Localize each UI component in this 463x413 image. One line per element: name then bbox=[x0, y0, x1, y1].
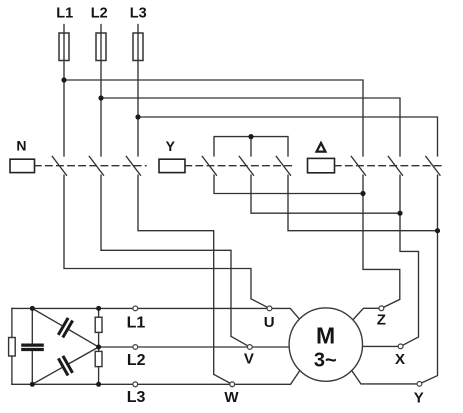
svg-text:L1: L1 bbox=[56, 6, 73, 22]
wire L2 phase vertical bbox=[100, 25, 102, 156]
svg-text:Z: Z bbox=[377, 312, 386, 329]
svg-text:L2: L2 bbox=[91, 6, 108, 22]
svg-text:L1: L1 bbox=[127, 314, 146, 331]
wire resistor chain bbox=[98, 308, 100, 384]
node L2 tap bbox=[98, 95, 103, 100]
contactor Y mechanical link bbox=[185, 165, 294, 167]
wire delta pole 2 to terminal X bbox=[400, 175, 419, 346]
node snubber top left bbox=[30, 306, 35, 311]
terminal Z bbox=[379, 306, 384, 311]
capacitor C1 diagonal branch bbox=[28, 301, 103, 354]
terminal Y bbox=[417, 382, 422, 387]
svg-text:V: V bbox=[244, 351, 254, 368]
contact N pole 2 blade bbox=[89, 156, 103, 175]
node snubber bottom right bbox=[96, 382, 101, 387]
svg-text:L3: L3 bbox=[127, 389, 146, 406]
wire star bridge centre tap bbox=[250, 137, 252, 156]
contactor D symbol triangle bbox=[317, 143, 326, 152]
wire Y pole 3 to node Y feed bbox=[288, 175, 438, 231]
wire L3 feed to delta contact 3 bbox=[138, 117, 438, 156]
wire delta pole 3 to terminal Y bbox=[419, 175, 437, 384]
contact Y pole 1 blade bbox=[202, 156, 216, 175]
contact Y pole 3 blade bbox=[276, 156, 290, 175]
contactor N coil bbox=[10, 159, 35, 172]
wire Y pole 2 to node X feed bbox=[251, 175, 400, 213]
wire motor lead to terminal Z bbox=[350, 308, 381, 323]
svg-text:L3: L3 bbox=[130, 6, 147, 22]
resistor R2 chain upper bbox=[95, 317, 102, 332]
terminal W bbox=[230, 382, 235, 387]
wire row L1 to motor U lead bbox=[12, 308, 302, 321]
svg-text:W: W bbox=[224, 389, 239, 406]
terminal U bbox=[267, 306, 272, 311]
node L1 tap bbox=[61, 77, 66, 82]
terminal L1 bbox=[133, 306, 138, 311]
terminal V bbox=[247, 345, 252, 350]
wire star bridge bbox=[214, 137, 288, 156]
fuse F3 bbox=[133, 33, 143, 61]
resistor R1 left rail bbox=[9, 338, 16, 357]
wire N pole 3 to terminal W bbox=[138, 175, 232, 384]
fuse F2 bbox=[96, 33, 106, 61]
node snubber top right bbox=[96, 306, 101, 311]
resistor R3 chain lower bbox=[95, 351, 102, 366]
wire L3 phase vertical bbox=[137, 25, 139, 156]
wire row L2 to motor V lead bbox=[99, 346, 290, 348]
wire N pole 2 to terminal V bbox=[101, 175, 250, 347]
capacitor C3 vertical branch plates bbox=[23, 345, 42, 349]
wire motor lead to terminal Y bbox=[350, 368, 419, 384]
contact N pole 1 blade bbox=[52, 156, 66, 175]
fuse F1 bbox=[59, 33, 69, 61]
svg-text:3~: 3~ bbox=[314, 350, 337, 372]
contactor D coil bbox=[308, 158, 335, 172]
contactor N mechanical link bbox=[35, 165, 147, 167]
wire L2 feed to delta contact 2 bbox=[101, 98, 400, 156]
terminal L3 bbox=[133, 382, 138, 387]
svg-text:Y: Y bbox=[414, 389, 424, 406]
contactor D mechanical link bbox=[335, 165, 444, 167]
contactor Y coil bbox=[159, 159, 185, 172]
node L3 tap bbox=[135, 114, 140, 119]
contact D pole 2 blade bbox=[388, 156, 402, 175]
contact N pole 3 blade bbox=[126, 156, 140, 175]
wire row L3 to motor W lead bbox=[12, 368, 302, 384]
svg-text:Y: Y bbox=[166, 138, 176, 154]
wire Y pole 1 to node Z feed bbox=[214, 175, 363, 193]
contact D pole 1 blade bbox=[351, 156, 365, 175]
terminal L2 bbox=[133, 345, 138, 350]
terminal X bbox=[398, 344, 403, 349]
wire capacitor branch top bbox=[31, 308, 33, 343]
wire motor lead to terminal X bbox=[362, 345, 400, 347]
wire L1 phase vertical bbox=[63, 25, 65, 156]
svg-text:M: M bbox=[316, 323, 335, 349]
contact Y pole 2 blade bbox=[239, 156, 253, 175]
node Y junction bbox=[435, 228, 440, 233]
svg-text:N: N bbox=[16, 137, 26, 153]
wire snubber left rail bbox=[11, 308, 13, 384]
svg-text:U: U bbox=[264, 314, 275, 331]
node snubber bottom left bbox=[30, 382, 35, 387]
motor M1 body bbox=[289, 308, 362, 381]
wire N pole 1 to terminal U bbox=[64, 175, 270, 308]
svg-text:L2: L2 bbox=[127, 352, 146, 369]
contact D pole 3 blade bbox=[426, 156, 440, 175]
node Z junction bbox=[360, 191, 365, 196]
wire capacitor branch bottom bbox=[31, 351, 33, 384]
wire delta pole 1 to terminal Z bbox=[363, 175, 400, 308]
node star bridge bbox=[248, 134, 253, 139]
wire L1 feed to delta contact 1 bbox=[64, 80, 363, 156]
capacitor C2 diagonal branch bbox=[28, 340, 103, 392]
node X junction bbox=[397, 211, 402, 216]
node snubber mid bbox=[96, 345, 101, 350]
svg-text:X: X bbox=[395, 351, 405, 368]
